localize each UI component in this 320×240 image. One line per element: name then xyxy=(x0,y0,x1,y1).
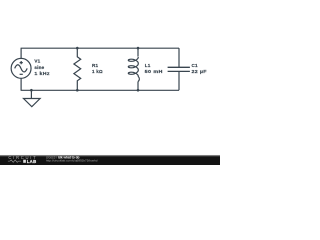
node top L1 junction xyxy=(137,47,140,50)
svg-text:22 µF: 22 µF xyxy=(192,69,207,75)
svg-text:L1: L1 xyxy=(145,63,151,68)
svg-text:C1: C1 xyxy=(192,63,199,68)
ground xyxy=(24,90,41,107)
svg-text:V1: V1 xyxy=(34,59,40,64)
svg-text:http://circuitlab.com/c/q6892b: http://circuitlab.com/c/q6892b75/bushd xyxy=(46,159,98,163)
wire left stem bottom xyxy=(20,78,22,90)
svg-text:LAB: LAB xyxy=(27,159,37,164)
voltage source V1 xyxy=(11,58,31,78)
svg-text:R1: R1 xyxy=(92,63,99,68)
inductor L1 xyxy=(137,48,139,57)
wire left stem top xyxy=(20,48,22,58)
svg-text:sine: sine xyxy=(34,65,44,70)
wire top rail xyxy=(21,47,179,49)
svg-text:1 kΩ: 1 kΩ xyxy=(92,69,103,74)
svg-text:50mH: 50mH xyxy=(145,70,163,75)
resistor R1 xyxy=(74,48,81,90)
capacitor C1 xyxy=(178,48,180,67)
node top R1 junction xyxy=(76,47,79,50)
node bottom R1 junction xyxy=(76,89,79,92)
wire bottom rail xyxy=(21,89,179,91)
node bottom L1 junction xyxy=(137,89,140,92)
node bottom ground junction xyxy=(30,89,33,92)
svg-text:1 kHz: 1 kHz xyxy=(34,71,50,77)
